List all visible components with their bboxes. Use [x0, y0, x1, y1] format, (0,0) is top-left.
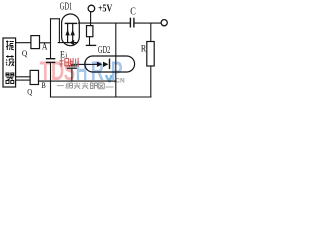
- svg-text:Q: Q: [27, 86, 33, 96]
- svg-text:C: C: [130, 7, 136, 18]
- svg-text:GD1: GD1: [60, 2, 72, 13]
- svg-text:R: R: [141, 44, 147, 54]
- svg-text:Q: Q: [22, 48, 28, 58]
- svg-text:i: i: [65, 51, 67, 59]
- svg-text:A: A: [42, 42, 48, 52]
- svg-text:B: B: [41, 81, 46, 90]
- svg-text:+5V: +5V: [98, 4, 113, 15]
- svg-text:GD2: GD2: [98, 45, 111, 56]
